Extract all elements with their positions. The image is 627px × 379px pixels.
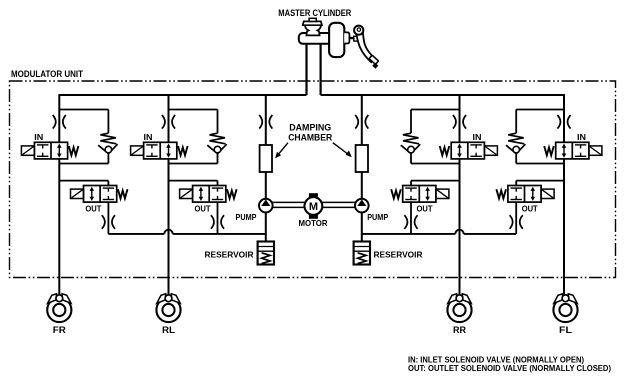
- wire: check-valve loop top RL: [169, 109, 218, 111]
- svg-text:OUT: OUT: [195, 204, 211, 213]
- wire hop over RL main line: [164, 230, 172, 234]
- wire: left pump circuit vertical: [265, 95, 267, 242]
- arrow to right damping chamber: [333, 143, 349, 155]
- brake pedal arm: [356, 32, 374, 63]
- pipe joint on return drop FR: [102, 215, 105, 229]
- wire: left return bus: [108, 233, 164, 235]
- wire: check-valve loop bottom FR: [59, 163, 108, 165]
- pipe joint on main line RR: [453, 115, 456, 129]
- wire: check-valve loop top RR: [411, 109, 460, 111]
- solenoid valve IN (FR): [34, 142, 67, 159]
- motor shaft right: [322, 201, 355, 203]
- modulator unit dashed border box: [10, 81, 616, 278]
- wire: OUT valve feed FL: [516, 180, 564, 182]
- wire: right supply bus from master cylinder: [321, 94, 565, 96]
- reservoir left: [258, 242, 274, 265]
- pipe joint on return drop RL: [211, 215, 214, 229]
- solenoid valve IN (RR): [451, 142, 484, 159]
- wire: OUT valve return drop FR: [107, 202, 109, 234]
- pipe joint on right pump line: [355, 115, 358, 129]
- wire: master cylinder left port pipe: [305, 44, 307, 95]
- wire: OUT valve return drop FL: [515, 202, 517, 234]
- wire hop over RR main line: [455, 230, 463, 234]
- svg-text:FL: FL: [559, 325, 573, 335]
- svg-text:RESERVOIR: RESERVOIR: [205, 250, 254, 260]
- check valve (FR): [107, 110, 109, 134]
- wire: OUT valve feed FR: [59, 180, 108, 182]
- motor M: [309, 193, 318, 198]
- svg-text:MODULATOR UNIT: MODULATOR UNIT: [11, 69, 83, 79]
- master cylinder reservoir neck: [305, 25, 321, 35]
- svg-text:MOTOR: MOTOR: [299, 218, 328, 228]
- reservoir right: [354, 242, 370, 265]
- pipe joint on main line FR: [53, 115, 56, 129]
- wheel brake RR: [447, 298, 471, 322]
- wire: check-valve loop bottom FL: [516, 163, 564, 165]
- wire: master cylinder right port pipe: [320, 44, 322, 95]
- wire: main vertical line FR: [58, 95, 60, 296]
- svg-text:RR: RR: [453, 325, 466, 335]
- solenoid valve OUT (FL): [508, 186, 541, 203]
- svg-text:OUT: OUT: [85, 204, 101, 213]
- wire: OUT valve return drop RL: [217, 202, 219, 234]
- pipe joint on return drop RR: [404, 215, 407, 229]
- svg-text:RESERVOIR: RESERVOIR: [374, 250, 423, 260]
- wheel brake FL: [553, 298, 577, 322]
- wheel brake RL: [156, 298, 180, 322]
- solenoid valve OUT (RL): [193, 186, 226, 203]
- solenoid valve OUT (FR): [84, 186, 117, 203]
- pedal pad: [369, 55, 378, 64]
- master cylinder reservoir cap: [303, 21, 322, 25]
- wire: OUT valve return drop RR: [410, 202, 412, 234]
- pipe joint on return drop FL: [510, 215, 513, 229]
- wire: OUT valve feed RR: [411, 180, 460, 182]
- svg-text:IN: IN: [144, 133, 153, 142]
- pedal pivot lobe: [354, 26, 363, 35]
- svg-text:DAMPING: DAMPING: [289, 122, 331, 132]
- svg-text:OUT: OUT: [522, 204, 538, 213]
- pipe joint on left pump line: [259, 115, 262, 129]
- damping chamber left: [260, 145, 272, 172]
- check valve (RL): [217, 110, 219, 134]
- wire: check-valve loop top FR: [59, 109, 108, 111]
- check valve (RR): [410, 110, 412, 134]
- solenoid valve IN (RL): [144, 142, 177, 159]
- svg-text:FR: FR: [53, 325, 67, 335]
- wire: check-valve loop bottom RL: [169, 163, 218, 165]
- arrow to left damping chamber: [278, 143, 288, 155]
- pipe joint on main line RL: [162, 115, 165, 129]
- svg-text:M: M: [309, 201, 318, 213]
- pushrod clevis: [354, 36, 359, 41]
- wire: OUT valve feed RL: [169, 180, 218, 182]
- check valve (FL): [515, 110, 517, 134]
- motor shaft left: [272, 201, 304, 203]
- svg-text:CHAMBER: CHAMBER: [288, 133, 332, 143]
- pump right: [355, 199, 369, 213]
- svg-text:PUMP: PUMP: [236, 212, 257, 222]
- wire: left supply bus from master cylinder: [58, 94, 306, 96]
- wire: main vertical line FL: [563, 95, 565, 296]
- wire: main vertical line RR: [459, 95, 461, 296]
- pushrod housing: [344, 32, 349, 43]
- svg-text:IN: IN: [34, 133, 43, 142]
- svg-text:PUMP: PUMP: [367, 212, 388, 222]
- solenoid valve OUT (RR): [403, 186, 436, 203]
- svg-text:MASTER CYLINDER: MASTER CYLINDER: [278, 8, 351, 18]
- wire: right pump circuit vertical: [361, 95, 363, 242]
- master cylinder cap nub: [309, 18, 316, 21]
- master cylinder body: [299, 33, 346, 44]
- damping chamber right: [356, 145, 368, 172]
- pipe joint on main line FL: [557, 115, 560, 129]
- solenoid valve IN (FL): [556, 142, 589, 159]
- pump left: [259, 199, 273, 213]
- svg-text:OUT: OUT: [417, 204, 433, 213]
- wire: right return bus: [362, 233, 456, 235]
- wire: check-valve loop top FL: [516, 109, 564, 111]
- wire: main vertical line RL: [168, 95, 170, 296]
- svg-text:IN: IN: [473, 133, 482, 142]
- svg-text:RL: RL: [162, 325, 176, 335]
- wheel brake FR: [47, 298, 71, 322]
- brake booster: [329, 23, 344, 57]
- svg-text:IN: IN: [577, 133, 586, 142]
- svg-text:OUT: OUTLET SOLENOID VALVE (NO: OUT: OUTLET SOLENOID VALVE (NORMALLY CLO…: [408, 363, 611, 373]
- pushrod: [349, 37, 358, 39]
- wire: check-valve loop bottom RR: [411, 163, 460, 165]
